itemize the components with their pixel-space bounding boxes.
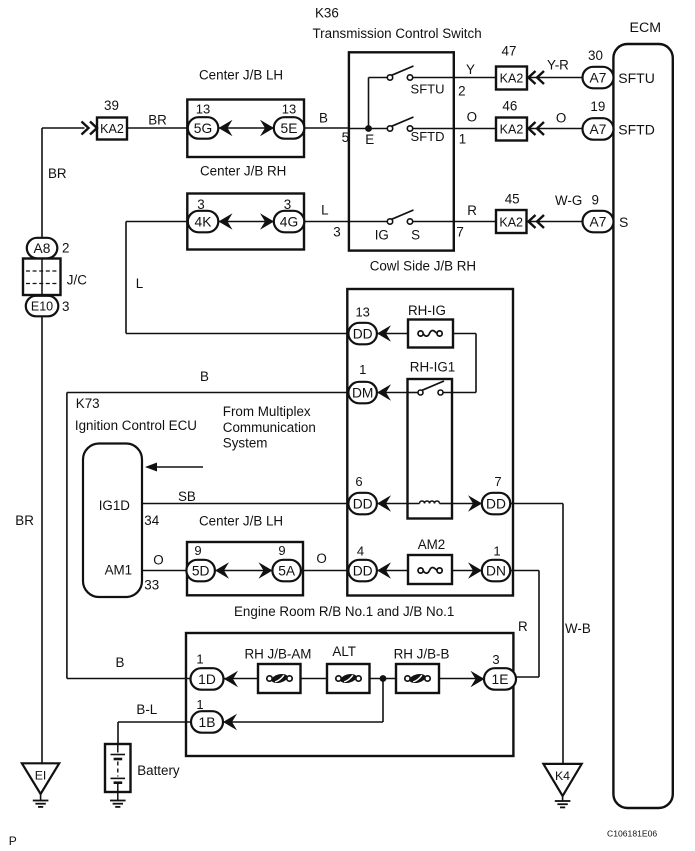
svg-text:1: 1 [359,362,366,377]
svg-text:9: 9 [278,543,285,558]
svg-text:3: 3 [492,652,499,667]
wire SFTD contact to pin 1 [413,128,453,130]
svg-text:Center J/B LH: Center J/B LH [199,514,283,529]
connector A7 SFTD [583,118,614,140]
arrow at DD 6 [377,495,391,511]
svg-text:13: 13 [355,305,369,320]
svg-text:4: 4 [357,544,364,559]
connector KA2 45 box [496,210,527,233]
svg-text:L: L [136,276,143,291]
connector 5G [188,117,219,139]
wire SB IG1D to DD 6 [142,503,349,505]
svg-text:4G: 4G [280,214,298,229]
wire R DN to 1E [511,570,540,572]
wire 1B to junction below ALT [223,721,383,723]
svg-text:O: O [153,553,163,568]
connector 5A [272,560,301,582]
svg-text:B: B [116,655,125,670]
connector DM [348,382,377,404]
svg-text:9: 9 [194,543,201,558]
fuse RH J/B-AM symbol [267,676,272,681]
svg-text:C106181E06: C106181E06 [607,829,657,839]
wire node E vertical to SFTU contact [368,78,370,129]
svg-text:KA2: KA2 [499,216,523,230]
connector DD 6 [348,493,377,515]
svg-text:1: 1 [459,132,466,147]
svg-text:7: 7 [494,474,501,489]
svg-text:A8: A8 [34,241,51,256]
svg-text:B: B [200,369,209,384]
wire W-B DD 7 to K4 ground [511,503,564,505]
svg-text:1D: 1D [198,672,216,687]
wire BR from KA2 39 to A8 junction [42,127,85,129]
connector KA2 39 box [97,118,127,140]
svg-text:DD: DD [486,496,506,511]
wire DM into relay RH-IG1 [377,392,408,394]
wire 4K to 4G inside Center J/B RH [218,221,274,223]
svg-text:RH-IG: RH-IG [408,303,446,318]
svg-text:1B: 1B [199,715,216,730]
wire O KA2 46 to A7 [527,128,583,130]
fuse RH J/B-B symbol [405,676,410,681]
wire 1D row through fuses [224,678,258,680]
arrow at 4G [260,213,274,229]
svg-text:O: O [467,110,477,125]
svg-text:P: P [9,834,17,848]
wire DD 4 to AM2 fuse [377,570,408,572]
battery [105,744,131,792]
svg-text:33: 33 [144,578,159,593]
fuse RH-IG symbol [418,331,423,336]
svg-text:SFTU: SFTU [411,82,445,97]
svg-text:45: 45 [505,192,520,207]
arrow at 4K [219,213,233,229]
svg-text:RH-IG1: RH-IG1 [410,360,455,375]
svg-text:ALT: ALT [332,644,356,659]
svg-text:DD: DD [353,496,373,511]
svg-text:KA2: KA2 [500,72,524,86]
svg-text:Center J/B LH: Center J/B LH [199,68,283,83]
wire SFTD row inside switch to contact [349,128,388,130]
wire IG row inside switch [349,221,388,223]
ECM box [613,44,672,808]
Engine Room R/B No.1 and J/B No.1 box [186,633,513,756]
svg-text:RH J/B-AM: RH J/B-AM [245,647,312,662]
fuse ALT box [327,664,370,693]
arrow into K73 IG1D [148,466,203,468]
svg-text:W-G: W-G [555,193,582,208]
svg-text:EI: EI [35,769,47,783]
wire L from Center J/B RH down to DD 13 [126,221,188,223]
svg-text:DN: DN [486,563,506,578]
svg-text:System: System [223,436,268,451]
svg-text:RH J/B-B: RH J/B-B [394,647,450,662]
svg-text:SFTU: SFTU [618,70,655,86]
chevrons into KA2 46 [529,122,536,135]
wire B from DM to 1D via left side [67,392,377,394]
svg-text:L: L [321,203,328,218]
connector 4G [274,211,305,233]
junction connector J/C box [23,259,61,296]
connector 1B [191,711,223,733]
Cowl Side J/B RH box [347,289,513,596]
chevrons into KA2 45 [529,215,536,228]
svg-text:KA2: KA2 [500,123,524,137]
arrow at 5E [260,120,274,136]
svg-text:5G: 5G [194,121,212,136]
svg-text:B-L: B-L [136,702,157,717]
svg-text:A7: A7 [590,70,607,85]
K73 ignition control ECU outline [83,444,142,598]
svg-text:R: R [467,203,477,218]
wire RH-IG fuse output to relay contact [453,333,476,335]
connector DN [482,560,511,582]
wire SFTU contact to pin 2 [413,77,453,79]
svg-text:K36: K36 [315,6,339,21]
svg-text:AM2: AM2 [418,537,446,552]
svg-text:E10: E10 [31,299,53,313]
connector DD 4 [348,560,377,582]
svg-text:AM1: AM1 [105,563,133,578]
fuse AM2 symbol [418,568,423,573]
wire O 5A to DD 4 [301,570,349,572]
svg-text:SFTD: SFTD [618,121,655,137]
svg-text:IG: IG [375,228,389,243]
svg-text:13: 13 [282,102,296,117]
svg-text:Y-R: Y-R [547,58,569,73]
fuse RH-IG box [408,320,453,348]
connector DD 13 [348,323,377,345]
svg-text:Engine Room R/B No.1 and J/B N: Engine Room R/B No.1 and J/B No.1 [234,604,454,619]
svg-text:30: 30 [588,48,603,63]
svg-text:6: 6 [355,474,362,489]
connector KA2 47 box [496,67,527,90]
wire 5D to 5A inside Center J/B LH [215,570,273,572]
svg-text:DD: DD [353,326,373,341]
wire B 5E to switch pin 5 [304,127,349,129]
svg-text:IG1D: IG1D [99,498,131,513]
connector KA2 46 box [496,118,527,141]
svg-text:Center J/B RH: Center J/B RH [200,164,286,179]
svg-text:4K: 4K [195,214,213,229]
arrow at 5G [219,120,233,136]
arrow at DN [468,562,482,578]
transmission control switch box [349,52,454,250]
svg-text:ECM: ECM [630,20,662,36]
svg-text:5A: 5A [278,563,296,578]
svg-text:3: 3 [197,197,204,212]
arrow at 1D [224,671,238,687]
svg-text:BR: BR [15,513,34,528]
arrow at DD 13 [377,325,391,341]
Center J/B RH box [187,194,304,250]
chevrons into KA2 39 [90,122,97,135]
fuse RH J/B-AM box [258,664,301,693]
svg-text:SB: SB [178,489,196,504]
Center J/B LH box top [187,100,304,158]
svg-text:E: E [365,132,374,147]
svg-text:R: R [518,619,528,634]
svg-text:3: 3 [284,197,291,212]
wire Y switch to KA2 47 [453,77,496,79]
switch contact SFTU [387,75,392,80]
svg-text:K4: K4 [555,769,570,783]
wire R switch to KA2 45 [453,221,496,223]
svg-text:BR: BR [148,113,167,128]
arrow at 5A [259,562,273,578]
junction dot at ALT output [380,675,387,682]
svg-text:1E: 1E [492,672,509,687]
svg-text:19: 19 [590,99,605,114]
svg-text:Y: Y [466,62,475,77]
relay RH-IG1 box [408,379,453,519]
svg-text:SFTD: SFTD [411,129,445,144]
connector A8 [27,238,58,258]
svg-text:1: 1 [493,544,500,559]
ground K4 triangle [543,764,581,796]
connector 1D [191,668,224,690]
svg-text:1: 1 [196,697,203,712]
svg-text:13: 13 [196,102,210,117]
svg-text:5D: 5D [192,563,210,578]
fuse ALT symbol [336,676,341,681]
wire 5G to 5E inside Center J/B LH [218,127,274,129]
svg-text:39: 39 [104,98,119,113]
svg-text:Ignition Control ECU: Ignition Control ECU [75,418,197,433]
arrow at 5D [215,562,229,578]
connector A7 SFTU [583,67,614,89]
svg-text:9: 9 [592,193,599,208]
svg-text:3: 3 [333,225,340,240]
relay RH-IG1 contact [418,390,423,395]
svg-text:O: O [316,551,326,566]
fuse RH J/B-B box [396,664,439,693]
connector E10 [26,296,59,317]
svg-text:Communication: Communication [223,420,316,435]
wire W-G KA2 45 to A7 [527,221,584,223]
arrow at DM [377,384,391,400]
connector 1E [484,668,516,690]
wire B-L 1B to battery [118,721,191,723]
svg-text:Transmission Control Switch: Transmission Control Switch [313,26,482,41]
svg-text:34: 34 [144,513,159,528]
wire DD 13 to fuse RH-IG [377,333,408,335]
svg-text:46: 46 [502,99,517,114]
svg-text:W-B: W-B [565,621,591,636]
chevrons into KA2 47 [529,71,536,84]
wire BR from E10 down to EI ground [41,316,43,764]
fuse AM2 box [408,555,452,584]
svg-text:O: O [556,111,566,126]
wire relay coil leads [377,503,420,505]
svg-text:S: S [411,228,420,243]
wire AM2 fuse to DN [452,570,482,572]
connector A7 S [583,211,614,233]
svg-text:BR: BR [48,166,67,181]
connector DD 7 [482,493,511,515]
arrow at DD 4 [377,562,391,578]
arrow at DD 7 [468,495,482,511]
arrow at 1B [223,714,237,730]
svg-text:B: B [319,111,328,126]
wire L 4G to switch pin 3 [304,221,349,223]
svg-text:J/C: J/C [67,273,87,288]
wire O AM1 to 5D [142,570,187,572]
svg-text:S: S [619,214,628,230]
connector 5E [274,117,305,139]
arrow at 1E [471,671,485,687]
svg-text:KA2: KA2 [100,122,124,136]
svg-text:A7: A7 [590,122,607,137]
wire S contact to pin 7 [413,221,453,223]
svg-text:DD: DD [353,563,373,578]
svg-text:K73: K73 [76,396,100,411]
ground EI triangle [22,763,59,794]
switch contact IG-S [387,219,392,224]
svg-text:From Multiplex: From Multiplex [223,404,311,419]
connector 4K [188,211,219,233]
svg-text:Cowl Side J/B RH: Cowl Side J/B RH [370,259,476,274]
node E junction dot [365,125,372,132]
svg-text:7: 7 [456,225,463,240]
svg-text:5E: 5E [281,121,298,136]
svg-text:5: 5 [342,130,349,145]
wire Y-R KA2 47 to A7 [527,77,583,79]
switch contact SFTD [387,126,392,131]
svg-text:Battery: Battery [137,763,180,778]
svg-text:1: 1 [196,652,203,667]
svg-text:A7: A7 [590,214,607,229]
svg-text:47: 47 [502,44,517,59]
svg-text:2: 2 [458,84,465,99]
wire KA2 39 to Center J/B LH 5G [127,127,188,129]
wire coil to DD 7 [452,503,482,505]
relay RH-IG1 coil [420,501,440,503]
wire O switch to KA2 46 [453,128,496,130]
Center J/B LH box lower [187,542,303,595]
connector 5D [186,560,215,582]
svg-text:3: 3 [62,299,69,314]
svg-text:DM: DM [352,385,373,400]
svg-text:2: 2 [62,241,69,256]
